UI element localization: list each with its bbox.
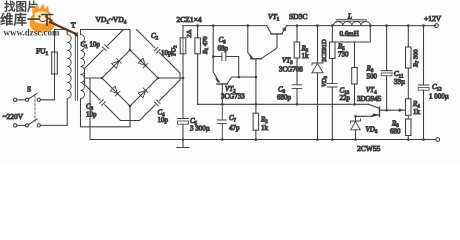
svg-text:500: 500 [367, 73, 378, 81]
wire bridge bottom stub [129, 106, 131, 127]
svg-text:47p: 47p [229, 124, 240, 132]
node VT2 collector / C6 [237, 76, 240, 79]
wire junction down to C5 [182, 78, 184, 119]
wire C6 right to VT2 collector node [226, 57, 239, 78]
diode VD4 (lower-right) [138, 88, 148, 98]
svg-text:+12V: +12V [424, 14, 442, 23]
svg-text:33µ: 33µ [394, 78, 405, 86]
transistor VT2 base bar [217, 83, 227, 85]
node C8 on mid rail [296, 103, 299, 106]
wire secondary top to bridge [81, 30, 131, 35]
transistor VT1 collector [267, 26, 272, 34]
transistor VT2 emitter [213, 57, 219, 82]
wire top rail left part (collector feed) [183, 25, 267, 27]
node AC terminal bottom [14, 124, 17, 127]
wire bus corner down to FU2 [182, 26, 184, 38]
svg-text:FU2: FU2 [171, 45, 178, 56]
wire bridge diamond edges [102, 50, 158, 106]
svg-text:68p: 68p [218, 45, 229, 53]
svg-text:1k: 1k [413, 108, 421, 116]
svg-text:3CG708: 3CG708 [279, 66, 303, 74]
transistor VT4 base bar [379, 107, 381, 117]
svg-text:2CW55: 2CW55 [357, 144, 381, 153]
switch S pole bottom [17, 124, 26, 126]
svg-text:0.6mH: 0.6mH [340, 30, 359, 38]
wire R6 bottom to mid rail [354, 84, 356, 104]
wire outer cap loop lower-right (C4 branch) [140, 80, 181, 121]
node C6/VT2 emitter rail tap [212, 24, 215, 27]
capacitor C3 plates [100, 100, 106, 106]
transistor VT3 base bar [251, 58, 261, 60]
svg-text:3DG945: 3DG945 [357, 95, 382, 103]
wire to C6 [213, 56, 222, 58]
transistor VT1 base bar [271, 33, 282, 35]
node R7 rail tap [407, 24, 410, 27]
node VD5 rail tap [316, 24, 319, 27]
capacitor C12 electrolytic [423, 26, 425, 85]
svg-text:T: T [71, 21, 76, 30]
node C12 ground [422, 138, 425, 141]
node R3 rail tap [296, 24, 299, 27]
watermark mascot [30, 4, 55, 33]
node +12V terminal [435, 24, 439, 28]
svg-text:C7: C7 [229, 114, 237, 124]
node C11 rail tap [385, 24, 388, 27]
svg-text:680: 680 [390, 128, 401, 136]
svg-text:S: S [27, 85, 31, 94]
svg-text:VD6: VD6 [366, 126, 378, 136]
capacitor C8 [292, 85, 302, 89]
zener diode VD5 2CZ91D [317, 26, 319, 63]
capacitor C4 plates [154, 100, 160, 106]
capacitor C10 [327, 83, 337, 87]
wire bottom rail [90, 139, 424, 141]
svg-text:10p: 10p [86, 111, 97, 119]
inductor L core [336, 20, 367, 22]
wire FU1 to primary [55, 30, 68, 35]
node AC terminal top [14, 98, 17, 101]
transistor VT4 emitter [356, 115, 380, 117]
wire outer cap loop upper-left (C1 branch) [85, 30, 124, 85]
svg-text:730: 730 [338, 51, 349, 59]
svg-text:FU1: FU1 [36, 47, 49, 58]
svg-text:22p: 22p [340, 94, 351, 102]
node C10 ground [331, 138, 334, 141]
capacitor C2 plates [154, 47, 160, 53]
wire mid rail [198, 103, 369, 105]
resistor R4 [406, 99, 412, 116]
node bridge+ junction [182, 77, 185, 80]
transistor VT4 base lead to R4 wiper [380, 109, 405, 111]
node VT3 base / VT2 collector [255, 76, 258, 79]
svg-text:2CZ91D: 2CZ91D [321, 39, 328, 62]
resistor R8 [406, 119, 412, 136]
switch S pole top [17, 99, 26, 101]
node VD6 ground [354, 138, 357, 141]
node bridge top corner [129, 49, 132, 52]
transistor VT4 collector from mid rail [369, 104, 380, 108]
svg-text:VD5: VD5 [321, 75, 328, 87]
node L right rail tap [369, 24, 372, 27]
node 0V terminal [436, 138, 440, 142]
node C5 ground junction [182, 138, 185, 141]
SECTION: right output [312, 13, 449, 154]
svg-text:3CG733: 3CG733 [221, 93, 245, 101]
wire bottom to primary [40, 99, 67, 126]
SECTION: bridge [81, 15, 202, 140]
resistor R2 [253, 113, 259, 130]
svg-text:R7 300: R7 300 [413, 49, 420, 68]
node R5/L rail tap [331, 24, 334, 27]
node R8 ground [407, 138, 410, 141]
ground [177, 140, 189, 148]
transistor VT2 collector [227, 77, 256, 84]
node bridge bottom corner [129, 105, 132, 108]
svg-text:1k: 1k [302, 52, 310, 60]
wire switch to FU1 [40, 74, 54, 100]
resistor R3 [294, 42, 300, 58]
svg-text:680p: 680p [277, 94, 292, 102]
transistor VT3 base lead [255, 59, 257, 113]
wire bridge left corner to outer loop [85, 77, 103, 79]
fuse FU2 [180, 38, 186, 54]
svg-text:2A: 2A [186, 29, 193, 37]
capacitor C7 [217, 104, 226, 139]
svg-text:10p: 10p [158, 116, 169, 124]
svg-text:1k: 1k [261, 124, 269, 132]
wire top rail right part (emitter/output) [287, 25, 436, 27]
capacitor C5 electrolytic [178, 118, 189, 120]
svg-text:C1 10p: C1 10p [81, 41, 101, 51]
diode VD1 (upper-left) [112, 59, 122, 69]
node C12 rail tap [422, 24, 425, 27]
transistor VT3 collector [261, 35, 277, 59]
watermark [0, 0, 78, 38]
capacitor C6 [222, 53, 226, 61]
wire bridge right corner to bus [158, 77, 183, 79]
wire bottom rail to terminal [424, 139, 436, 141]
svg-text:VT1: VT1 [268, 12, 280, 23]
node R1 rail tap [196, 24, 199, 27]
svg-text:R1 470: R1 470 [202, 36, 209, 55]
wire outer cap loop lower-left (C3 branch) [85, 85, 121, 121]
transformer T primary winding [67, 35, 71, 99]
transistor VT3 emitter [248, 26, 253, 59]
transistor VT2 base lead [221, 84, 223, 104]
wire secondary bottom [81, 99, 131, 127]
SECTION: middle regulator [90, 12, 436, 148]
svg-text:VD1~VD4: VD1~VD4 [96, 15, 127, 26]
fuse FU1 [52, 52, 58, 74]
svg-text:维库一下: 维库一下 [0, 12, 54, 28]
node VD5 ground [316, 138, 319, 141]
svg-text:SD3C: SD3C [289, 12, 307, 21]
node R2 ground [255, 138, 258, 141]
wire FU2 to junction [182, 54, 184, 78]
svg-text:~220V: ~220V [3, 112, 24, 121]
resistor R1 [195, 38, 201, 54]
node C7 ground [221, 138, 224, 141]
wire C5 to bottom rail [182, 124, 184, 139]
zener diode VD6 2CW55 [355, 116, 357, 121]
svg-text:3 300µ: 3 300µ [190, 125, 210, 133]
wire R6 top jog [332, 26, 370, 68]
wire ground riser [89, 78, 91, 140]
node bridge right corner [157, 77, 160, 80]
wire VT2 emitter branch [212, 26, 214, 57]
svg-text:C12: C12 [432, 83, 442, 93]
diode VD2 (upper-right) [138, 58, 148, 68]
svg-text:1 000µ: 1 000µ [429, 93, 449, 101]
svg-text:L: L [347, 13, 352, 21]
node R6 mid rail [353, 103, 356, 106]
node C6 junction [212, 55, 215, 58]
svg-text:www.dzsc.com: www.dzsc.com [4, 28, 60, 38]
diode VD3 (lower-left) [110, 86, 120, 96]
node VD6 top [354, 115, 357, 118]
transistor VT1 emitter with arrow [282, 26, 287, 34]
resistor R6 [352, 68, 358, 85]
svg-text:2CZ1×4: 2CZ1×4 [177, 15, 202, 24]
inductor L winding [334, 21, 371, 25]
SECTION: left AC input [3, 21, 131, 128]
transformer T secondary winding [81, 35, 85, 99]
node VT3 emitter rail tap [247, 24, 250, 27]
resistor R5 [330, 42, 336, 59]
transformer T core [75, 33, 77, 101]
wire outer cap loop upper-right (C2 branch) [137, 30, 181, 81]
wire bottom outer across [121, 120, 140, 122]
resistor R7 [406, 47, 412, 68]
node bridge left corner [101, 77, 104, 80]
svg-text:C2: C2 [151, 32, 159, 42]
switch S dashed link [34, 96, 36, 122]
wire bridge top feed [129, 30, 131, 51]
capacitor C1 plates [103, 45, 109, 51]
capacitor C11 electrolytic [386, 26, 388, 71]
node C11 to VT4 base wire [385, 109, 388, 112]
node VT2 base on mid rail [221, 103, 224, 106]
node VT3 base on mid rail [255, 103, 258, 106]
